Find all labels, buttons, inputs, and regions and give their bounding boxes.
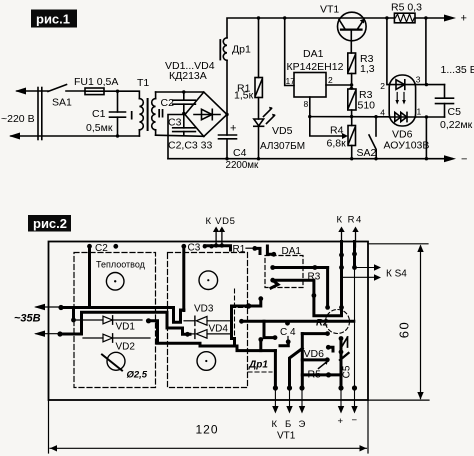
pad (60,334) [57,331,62,336]
arrow input bottom [9,133,20,140]
pad (89.5,246.3) [87,244,92,249]
node R1 top [257,16,260,19]
trace: branch to C4 [264,321,275,337]
svg-text:SA2: SA2 [357,147,377,159]
fuse FU1 [85,90,118,92]
pad (273.8,254.3) [271,252,276,257]
top rail [227,18,452,38]
trace: VD1 cathode to Др1 run [149,321,276,351]
svg-text:3: 3 [416,75,421,85]
svg-text:6,8к: 6,8к [327,138,347,150]
capacitor C4 [226,115,228,136]
svg-text:VD2: VD2 [116,342,136,353]
svg-text:VD4: VD4 [209,324,229,335]
trace: R5 bottom run [302,373,341,376]
diode VD2 [83,337,103,339]
svg-text:+: + [338,416,344,427]
pad (341.5,255) [339,253,344,258]
pad (327.3,359.8) [325,357,330,362]
pad (272.7,267.5) [270,265,275,270]
pad (241.5,321.3) [239,319,244,324]
trace: VD3 net riser [232,299,261,339]
trace: R1 right hook [267,246,273,254]
svg-text:−: − [352,415,358,426]
node DA1 top [283,16,286,19]
trace: DA1 pin8/R3 run [273,280,314,295]
pad (313.9,295.5) [312,293,317,298]
arrow: К output [274,388,276,409]
trace: R3 to plus column [314,296,342,316]
svg-text:Э: Э [299,419,306,430]
wire secondary top [156,91,204,93]
trace: C3 pad column [182,247,185,311]
wire pin2 to divider [326,84,352,86]
diode VD4 [185,333,195,335]
svg-text:1...35 В: 1...35 В [441,64,474,76]
pad (148.5,320.8) [146,318,151,323]
svg-text:VD1: VD1 [116,322,136,333]
arrow input top [15,88,26,95]
top arrows К VD5 [215,229,217,246]
capacitor C3 [183,115,185,128]
hole bottom-left with callout [107,352,125,370]
pad (260.8,298.7) [258,296,263,301]
svg-text:510: 510 [358,100,376,112]
trace: plus output column [340,339,343,389]
trace: plus bus horizontal [242,320,354,323]
trace: to VT1 collector pad К [274,351,277,388]
svg-text:2: 2 [328,75,333,85]
pad (354.5,267.5) [352,265,357,270]
capacitor C5 [444,85,446,99]
optocoupler VD6 [389,75,415,126]
svg-text:T1: T1 [137,77,149,89]
capacitor C1 [117,91,119,112]
wire: mains input bottom [11,135,139,137]
pad (354.5,254) [352,252,357,257]
svg-text:КД213А: КД213А [169,70,207,82]
svg-text:FU1 0,5А: FU1 0,5А [74,76,118,88]
svg-text:VD6: VD6 [304,348,325,360]
svg-text:2: 2 [380,81,385,91]
svg-text:C3: C3 [168,117,182,129]
pad (341,388) [338,385,343,390]
svg-text:К VD5: К VD5 [206,216,236,227]
svg-text:КР142ЕН12: КР142ЕН12 [287,61,344,73]
pad (115.8,246.3) [113,244,118,249]
svg-text:0,22мк: 0,22мк [440,119,473,131]
resistor R4 [310,117,344,136]
svg-text:рис.2: рис.2 [33,216,67,231]
heatsink right dashed [168,253,248,388]
trace: R3 column [326,268,329,308]
trace: top edge run C3 to К VD5 [205,244,222,247]
trace: stub to VD1 anode pad [72,308,75,320]
svg-text:C2: C2 [161,97,175,109]
trace: R5 top run [302,358,327,361]
diode VD1 [74,319,103,321]
svg-text:К: К [272,419,278,430]
pad (216.1,245.5) [214,243,218,247]
trace: C4 minus elbow [280,342,288,346]
svg-text:0,5мк: 0,5мк [86,122,113,134]
arrow: plus output [340,388,342,409]
wire bridge left to bottom rail [168,115,185,159]
resistor R3 510 [348,89,356,110]
svg-text:R5 0,3: R5 0,3 [391,2,422,14]
core T1 [147,99,149,130]
pad (221.9,245.5) [220,243,224,247]
pad (341,338.5) [339,336,344,341]
pad (354.5,388) [352,385,357,390]
fig label рис.1 [31,10,77,28]
svg-text:I: I [130,109,133,123]
winding I [118,91,140,98]
svg-text:рис.1: рис.1 [36,12,70,27]
svg-text:1,5к: 1,5к [234,90,254,102]
trace: DA1 pin17 run [273,266,328,269]
trace: AC input lower run to VD4 [60,312,190,334]
pad (341,351.9) [339,350,344,355]
trace: VD6 column to Э pad [301,334,304,388]
wire pin3 to C5 [416,84,445,86]
svg-text:1,3: 1,3 [360,63,375,75]
bridge VD1-VD4 diamond [185,92,227,137]
svg-text:−: − [461,154,467,166]
pad (327.6,307.4) [325,305,330,310]
pad (287.5,323.2) [285,321,290,326]
arrow: Б output [289,388,291,409]
svg-text:Др1: Др1 [232,44,251,56]
pad (341.5,307.4) [339,305,344,310]
svg-text:Б: Б [285,419,291,430]
hole top-right [199,271,218,290]
svg-text:Ø2,5: Ø2,5 [127,370,148,381]
trace: AC input upper run [61,308,184,323]
node: C1 top junction [116,90,119,93]
svg-text:R3: R3 [308,272,321,283]
switch SA1 [48,85,67,92]
svg-text:R5: R5 [308,369,322,381]
svg-text:DA1: DA1 [303,48,324,60]
hole bottom-right [197,352,216,371]
svg-text:8: 8 [304,99,309,109]
svg-text:1: 1 [417,107,422,117]
svg-text:C 4: C 4 [280,327,296,338]
resistor R5 [394,13,415,23]
svg-text:АЛ307БМ: АЛ307БМ [260,141,305,152]
pad (183.8,246.3) [181,244,186,249]
svg-text:C3: C3 [188,243,201,254]
trace: К R4 right column [353,242,356,268]
pad (275.4,388) [273,385,278,390]
svg-text:C5: C5 [448,106,462,118]
node bridge left corner [182,112,185,115]
dashed divider [234,289,236,346]
trace: diagonal to Б pad [290,349,303,389]
trace: R1 left hook [255,248,260,253]
LED VD5 [254,119,264,126]
trace: К VD5 hook [222,246,231,250]
svg-text:SA1: SA1 [52,97,72,109]
svg-text:R2: R2 [316,318,329,329]
lead: R1 [246,247,255,249]
svg-text:DA1: DA1 [282,246,302,257]
svg-text:C2: C2 [95,243,108,254]
winding II [155,92,157,99]
dashed circle VT1 hole [326,310,350,334]
svg-text:R1: R1 [233,244,246,255]
choke Др1 [223,38,227,61]
svg-text:+: + [230,123,236,135]
trace: junction stub [232,339,235,347]
svg-text:~35В: ~35В [14,313,41,325]
pad (272.7,280.2) [270,278,275,283]
node after R5 [424,16,427,19]
pad (204.8,246.3) [203,244,207,248]
wire rail to opto pin2 [387,18,389,85]
pad (302,388) [299,385,304,390]
svg-text:Др1: Др1 [248,360,268,371]
svg-text:VD3: VD3 [194,304,214,315]
wire: mains input top [17,90,48,92]
diode inside bridge [194,114,220,116]
input arrows ~35B [36,306,61,308]
pad (187.5,334.3) [185,332,190,337]
svg-text:VT1: VT1 [277,431,296,442]
top arrows К R4 [341,229,343,247]
pad (328.5,374.9) [326,372,331,377]
pad (73.5,320) [71,318,76,323]
right arrows К S4 [356,267,377,269]
trace: VD6 pad stub [328,347,333,351]
wire bridge right up to choke [226,60,228,114]
svg-text:К R4: К R4 [337,215,363,226]
arrow: minus output [354,388,356,409]
fig label рис.2 [28,215,71,232]
wire adj line [310,97,389,117]
hole top-left [106,273,124,291]
pad (275,337.6) [273,335,278,340]
dimension 120 bottom [48,401,50,453]
lead: C4 [287,337,289,342]
trace: Др1 pad stub [259,340,262,351]
board outline [49,242,369,401]
R5 wiper arrow [319,362,327,369]
capacitor C2 [183,92,185,100]
svg-text:АОУ103В: АОУ103В [384,140,430,152]
pad (288.2,341.8) [286,339,291,344]
svg-text:60: 60 [397,321,412,338]
wire pin1 [416,116,445,118]
svg-text:C1: C1 [92,108,106,120]
pad (328.3,347.3) [326,345,331,350]
svg-text:VT1: VT1 [320,4,339,16]
connector X1 plug lines [37,88,39,140]
pad (61,307.5) [58,305,63,310]
svg-text:VD5: VD5 [272,125,293,137]
svg-text:R4: R4 [330,125,344,137]
pad (314.9,267.5) [313,265,318,270]
trace: C2 pad to AC input net [88,247,91,308]
handwritten marks [341,337,348,348]
svg-text:2200мк: 2200мк [226,160,260,171]
wire secondary bottom [156,135,204,136]
trace: К R4 left column [340,242,343,309]
diode VD3 [184,320,195,322]
pad (327.5,333.6) [325,331,330,336]
wire rail to C5 top [425,18,427,85]
arrow plus [444,15,456,22]
pad (260.8,339.5) [258,337,263,342]
pad (254.8,248.4) [252,246,257,251]
svg-text:+: + [461,13,467,25]
svg-text:120: 120 [196,423,219,437]
pad (211.5,246.3) [209,244,213,248]
svg-text:4: 4 [380,108,385,118]
svg-text:17: 17 [286,76,296,86]
svg-text:~220 В: ~220 В [1,113,35,125]
svg-text:C2,C3 33: C2,C3 33 [168,140,213,152]
node after VT1 [385,16,388,19]
trace: VD6 top run [302,332,327,335]
dashed box DA1 [265,256,303,288]
trace: DA1 kink [271,281,278,288]
arrow: Э output [301,388,303,409]
resistor R3 1,3 [348,53,356,74]
wire: minus output column [354,268,356,389]
heatsink left dashed [74,253,156,388]
svg-text:C4: C4 [233,147,247,159]
pad (341.5,267.5) [339,265,344,270]
regulator DA1 [285,18,294,86]
resistor R1 [258,18,260,78]
svg-text:С5: С5 [342,365,353,378]
pad (248.6,306) [246,303,251,308]
arrow minus [444,155,456,162]
pad (289.5,388) [287,385,292,390]
bottom rail DC [168,158,452,160]
dimension 60 right [368,243,428,245]
wire [66,90,85,92]
svg-text:Теплоотвод: Теплоотвод [96,260,146,270]
switch SA2 [375,117,377,136]
dashed corner near Др1 [232,307,249,309]
svg-text:К S4: К S4 [386,269,407,280]
